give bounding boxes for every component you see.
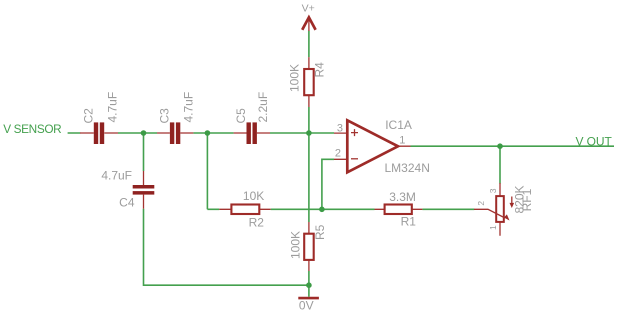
- svg-text:4.7uF: 4.7uF: [101, 169, 132, 183]
- svg-text:V SENSOR: V SENSOR: [3, 122, 61, 136]
- R2 pin leads: [219, 208, 270, 210]
- R5 body: [304, 234, 314, 260]
- svg-text:10K: 10K: [243, 189, 264, 203]
- RF1 body: [496, 196, 504, 222]
- R1 body: [385, 205, 412, 215]
- R5 pin leads: [308, 222, 310, 271]
- svg-text:IC1A: IC1A: [385, 118, 412, 132]
- svg-text:R5: R5: [313, 224, 327, 240]
- op-amp pin leads (pins 3, 2, 1): [334, 133, 411, 159]
- potentiometer RF1 820K: [474, 183, 534, 236]
- C3 pin leads: [157, 132, 193, 134]
- svg-text:C2: C2: [82, 108, 96, 124]
- wire R2 to R1 to RF1 wiper net: [207, 208, 474, 210]
- op-amp minus input mark: [351, 158, 358, 160]
- svg-text:2: 2: [476, 201, 486, 206]
- R4 pin leads: [308, 57, 310, 107]
- ground bar: [298, 297, 319, 300]
- svg-text:R1: R1: [401, 214, 417, 228]
- C4 pin leads: [143, 171, 145, 209]
- svg-text:R4: R4: [313, 62, 327, 78]
- RF1 wiper arrowhead: [504, 214, 510, 220]
- wire from output node down to RF1 pin 3: [499, 146, 501, 183]
- C2 plates: [94, 122, 104, 144]
- RF1 adjust arrowhead: [510, 203, 515, 208]
- svg-text:3: 3: [337, 122, 343, 134]
- capacitor C5: [234, 92, 270, 144]
- svg-text:C3: C3: [158, 108, 172, 124]
- svg-text:2.2uF: 2.2uF: [256, 92, 270, 123]
- junction node A (C2/C3/C4): [141, 130, 147, 136]
- supply symbol V+: [302, 2, 316, 31]
- C3 plates: [170, 122, 180, 144]
- ground symbol 0V: [298, 298, 319, 313]
- R4 body: [304, 69, 314, 95]
- resistor R4: [288, 57, 327, 107]
- C2 pin leads: [80, 132, 118, 134]
- wire from node B down to R2 left: [206, 133, 208, 209]
- svg-text:LM324N: LM324N: [385, 161, 430, 175]
- wire output net to V OUT: [411, 145, 615, 147]
- svg-text:100K: 100K: [288, 231, 302, 259]
- svg-text:3: 3: [488, 188, 498, 193]
- resistor R1: [375, 190, 423, 228]
- op-amp triangle body: [347, 120, 398, 172]
- wire op-amp pin2 feedback net: [322, 159, 334, 209]
- C5 pin leads: [234, 132, 270, 134]
- C4 plates: [133, 185, 155, 195]
- svg-text:3.3M: 3.3M: [389, 190, 416, 204]
- svg-text:4.7uF: 4.7uF: [105, 92, 119, 123]
- svg-text:R2: R2: [249, 215, 265, 229]
- svg-text:4.7uF: 4.7uF: [181, 92, 195, 123]
- junction node output (V OUT/RF1): [497, 143, 503, 149]
- R2 body: [231, 205, 259, 215]
- svg-text:1: 1: [399, 135, 405, 147]
- C5 plates: [247, 122, 257, 144]
- svg-text:V+: V+: [302, 2, 315, 14]
- capacitor C2: [80, 92, 119, 144]
- RF1 wiper lead and diagonal (pin 2): [474, 209, 505, 218]
- junction node B (C3/C5/R2): [205, 130, 211, 136]
- wire from node A down through C4 to bottom rail to ground node: [144, 133, 310, 285]
- svg-text:1: 1: [488, 225, 498, 230]
- capacitor C3: [157, 92, 195, 144]
- wire V SENSOR input net segments along y=133: [68, 132, 334, 134]
- V+ pin stem: [308, 18, 310, 31]
- junction node ground rail: [306, 282, 312, 288]
- op-amp plus input mark: [351, 129, 358, 136]
- junction node pin2 feedback (R2/R1): [319, 207, 325, 213]
- svg-text:0V: 0V: [299, 299, 314, 313]
- svg-text:100K: 100K: [288, 64, 302, 92]
- svg-text:V OUT: V OUT: [576, 135, 613, 149]
- RF1 adjust arrow stem: [511, 197, 513, 205]
- op-amp U1 IC1A LM324N: [334, 118, 430, 175]
- RF1 pin leads (pins 3 top, 1 bottom): [499, 183, 501, 236]
- V+ arrow chevron: [302, 17, 315, 29]
- resistor R2: [219, 189, 270, 229]
- R1 pin leads: [375, 208, 423, 210]
- svg-text:RF1: RF1: [520, 188, 534, 211]
- svg-text:C4: C4: [119, 196, 135, 210]
- svg-text:2: 2: [335, 148, 341, 160]
- capacitor C4: [101, 169, 154, 210]
- wire V+ column through R4 and R5 to ground: [308, 31, 310, 297]
- svg-text:C5: C5: [234, 108, 248, 124]
- resistor R5: [288, 222, 327, 271]
- junction node pin3 bias (R4/R5/C5): [306, 130, 312, 136]
